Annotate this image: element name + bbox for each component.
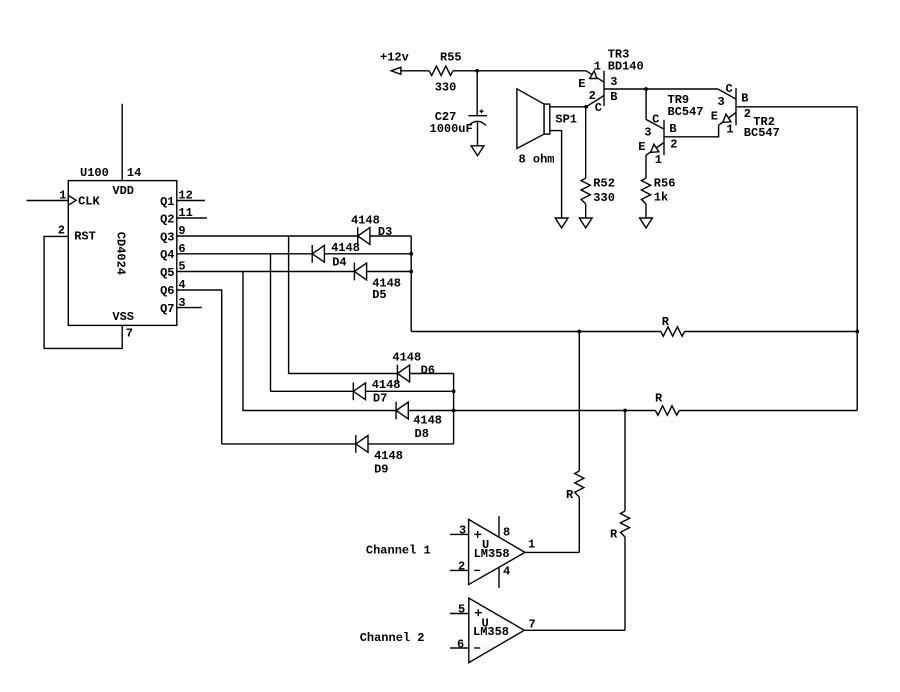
svg-text:D5: D5	[372, 288, 386, 302]
svg-text:C: C	[652, 112, 659, 126]
wire R52 top	[585, 107, 587, 178]
wire D3 group bus vertical	[410, 236, 412, 332]
svg-text:LM358: LM358	[474, 547, 510, 561]
resistor R52	[581, 177, 615, 206]
node TR3 base junction	[644, 87, 648, 91]
wire op2 pin6 stub	[450, 647, 469, 649]
wire D9 to bus	[368, 443, 454, 445]
svg-text:1: 1	[594, 60, 601, 74]
svg-text:Q2: Q2	[160, 212, 174, 226]
wire Q4 drop to D7 row	[271, 254, 354, 391]
svg-text:+12v: +12v	[380, 51, 409, 65]
node channel-2 net to op2 feedback	[623, 409, 627, 413]
wire TR9 collector drop	[646, 89, 664, 129]
op-amp U1B LM358 channel 2	[457, 598, 536, 663]
wire op1 feedback vertical lower	[578, 497, 580, 552]
node SP1/TR3 collector junction	[584, 105, 588, 109]
wire TR9 emitter to R56	[645, 155, 647, 178]
svg-text:4148: 4148	[372, 378, 401, 392]
svg-text:BC547: BC547	[744, 126, 780, 140]
power flag +12v	[380, 51, 409, 75]
wire D4 to bus	[324, 253, 411, 255]
svg-text:1: 1	[726, 123, 733, 137]
svg-text:C: C	[726, 82, 733, 96]
wire D6 group bus vertical	[453, 374, 455, 444]
wire Q2 stub pin 11	[177, 206, 207, 220]
svg-text:4148: 4148	[413, 414, 442, 428]
svg-text:CLK: CLK	[78, 195, 100, 209]
svg-text:3: 3	[718, 95, 725, 109]
svg-text:D7: D7	[373, 392, 387, 406]
wire D5 to bus	[367, 271, 412, 273]
svg-text:7: 7	[529, 617, 536, 631]
wire U100 pin 7 RST loop	[44, 223, 133, 348]
resistor R feedback channel 2	[655, 392, 679, 416]
svg-text:Q6: Q6	[160, 284, 174, 298]
svg-text:R52: R52	[593, 177, 615, 191]
transistor TR3	[578, 47, 644, 115]
wire TR9 base to TR2 emitter	[664, 125, 719, 137]
svg-text:4: 4	[178, 278, 185, 292]
svg-text:2: 2	[670, 138, 677, 152]
svg-text:4148: 4148	[374, 449, 403, 463]
wire right bus vertical	[856, 107, 858, 411]
wire TR3 base	[604, 88, 718, 90]
wire D6 to bus	[410, 373, 454, 375]
wire Q7 stub pin 3	[177, 296, 202, 310]
svg-text:D3: D3	[378, 225, 392, 239]
svg-text:Q7: Q7	[160, 302, 174, 316]
wire channel-2 net left	[454, 410, 656, 412]
wire Q3 drop to D6 row	[289, 236, 398, 374]
wire D7 to bus	[366, 390, 454, 392]
resistor R55	[429, 51, 461, 95]
svg-text:D9: D9	[374, 462, 388, 476]
svg-text:6: 6	[178, 242, 185, 256]
svg-text:9: 9	[178, 224, 185, 238]
svg-text:E: E	[638, 140, 645, 154]
svg-text:R: R	[610, 527, 618, 541]
wire channel-1 net left	[411, 331, 661, 333]
diode D3	[351, 213, 392, 245]
wire CLK stub	[27, 200, 69, 202]
diode D5	[354, 263, 401, 302]
svg-text:1: 1	[655, 153, 662, 167]
wire op1 pin4 power	[498, 567, 500, 588]
svg-text:2: 2	[458, 559, 465, 573]
svg-text:330: 330	[435, 80, 457, 94]
wire op2 output	[524, 629, 625, 631]
svg-text:VSS: VSS	[112, 310, 134, 324]
svg-text:12: 12	[178, 189, 192, 203]
wire R56 to ground	[645, 204, 647, 218]
svg-text:3: 3	[644, 125, 651, 139]
wire TR2 base to right bus	[736, 106, 857, 108]
svg-text:LM358: LM358	[473, 625, 509, 639]
capacitor C27	[430, 109, 488, 135]
svg-text:1: 1	[528, 538, 535, 552]
svg-text:5: 5	[178, 260, 185, 274]
svg-text:D4: D4	[332, 256, 346, 270]
wire SP1 bottom to ground	[550, 131, 562, 218]
svg-text:B: B	[741, 91, 748, 105]
svg-text:Q4: Q4	[160, 248, 174, 262]
transistor TR2	[711, 82, 780, 140]
svg-text:SP1: SP1	[555, 112, 577, 126]
wire D3 to bus	[370, 235, 411, 237]
svg-text:E: E	[578, 77, 585, 91]
svg-text:2: 2	[744, 107, 751, 121]
wire op1 output	[525, 551, 579, 553]
node D8 bus junction	[452, 409, 456, 413]
diode D9	[356, 435, 403, 476]
svg-text:RST: RST	[74, 230, 96, 244]
wire +12v rail left	[401, 70, 429, 72]
wire op2 feedback vertical upper	[624, 411, 626, 512]
op-amp U1A LM358 channel 1	[458, 519, 535, 584]
ground R56	[640, 218, 653, 228]
svg-text:4: 4	[503, 565, 510, 579]
node D4 bus junction	[409, 252, 413, 256]
svg-text:14: 14	[127, 166, 141, 180]
svg-text:Channel 2: Channel 2	[360, 631, 425, 645]
node D5 bus junction	[409, 270, 413, 274]
svg-text:6: 6	[457, 638, 464, 652]
svg-text:C: C	[595, 101, 602, 115]
wire op1 pin8 power	[498, 516, 500, 537]
wire op1 pin2 stub	[450, 569, 469, 571]
svg-text:D8: D8	[415, 427, 429, 441]
transistor TR9	[638, 93, 703, 167]
diode D6	[392, 351, 435, 383]
diode D4	[312, 241, 360, 270]
svg-text:Q5: Q5	[160, 266, 174, 280]
node channel-1 net to op1 feedback	[577, 330, 581, 334]
resistor R series channel 2	[610, 511, 630, 541]
wire D8 to bus	[408, 410, 453, 412]
svg-text:R56: R56	[654, 177, 676, 191]
op-amp U100 counter CD4024 body	[68, 166, 177, 326]
wire C27 to ground	[477, 122, 479, 146]
svg-text:1000uF: 1000uF	[430, 122, 473, 136]
wire Q4 row pin 6	[177, 242, 312, 256]
svg-text:D6: D6	[421, 363, 435, 377]
svg-text:E: E	[711, 110, 718, 124]
wire Q6 pin 4 down to D9 row	[177, 278, 222, 444]
svg-text:Channel 1: Channel 1	[366, 544, 431, 558]
wire D9 row	[222, 443, 356, 445]
svg-text:3: 3	[459, 524, 466, 538]
svg-text:R: R	[566, 488, 574, 502]
svg-text:B: B	[610, 90, 617, 104]
wire SP1 top	[550, 106, 586, 108]
ground SP1	[555, 218, 568, 228]
svg-text:B: B	[669, 122, 676, 136]
svg-text:VDD: VDD	[112, 184, 134, 198]
wire C27 drop	[476, 71, 478, 116]
svg-text:8: 8	[503, 526, 510, 540]
wire Q5 row pin 5	[177, 260, 355, 274]
svg-text:U100: U100	[80, 166, 109, 180]
wire +12v rail right	[453, 70, 586, 72]
svg-text:3: 3	[178, 296, 185, 310]
svg-text:8 ohm: 8 ohm	[519, 152, 555, 166]
ground C27	[471, 146, 484, 156]
speaker SP1	[517, 89, 577, 167]
resistor R feedback channel 1	[661, 315, 685, 336]
svg-text:4148: 4148	[351, 213, 380, 227]
svg-text:330: 330	[593, 191, 615, 205]
wire Q1 stub pin 12	[177, 189, 205, 203]
wire U100 pin 14 top	[121, 104, 123, 181]
svg-text:R: R	[655, 392, 663, 406]
wire Q3 row pin 9	[177, 224, 358, 238]
wire channel-1 net right	[685, 331, 858, 333]
resistor R56	[641, 177, 675, 205]
ground R52	[579, 218, 592, 228]
node D7 bus junction	[452, 389, 456, 393]
wire Q5 drop to D8 row	[243, 272, 396, 411]
wire op1 feedback vertical upper	[578, 332, 580, 472]
resistor R series channel 1	[566, 471, 584, 502]
node clock input triangle U100 pin 1	[59, 188, 76, 205]
svg-text:1k: 1k	[654, 190, 668, 204]
svg-text:R: R	[662, 315, 670, 329]
node C27 tap	[475, 69, 479, 73]
svg-text:11: 11	[178, 206, 192, 220]
svg-text:4148: 4148	[392, 351, 421, 365]
svg-text:BC547: BC547	[668, 105, 704, 119]
wire op2 pin5 stub	[450, 613, 469, 615]
svg-text:CD4024: CD4024	[113, 232, 127, 275]
svg-text:3: 3	[610, 75, 617, 89]
diode D7	[353, 378, 400, 406]
svg-text:7: 7	[126, 326, 133, 340]
svg-text:BD140: BD140	[608, 60, 644, 74]
svg-text:R55: R55	[440, 51, 462, 65]
svg-text:4148: 4148	[331, 241, 360, 255]
wire channel-2 net right	[679, 410, 857, 412]
svg-text:2: 2	[58, 223, 65, 237]
svg-text:Q3: Q3	[160, 230, 174, 244]
diode D8	[396, 402, 442, 441]
wire op2 feedback vertical lower	[624, 537, 626, 630]
svg-text:Q1: Q1	[160, 195, 174, 209]
node right bus junction	[855, 330, 859, 334]
wire R52 to ground	[585, 204, 587, 218]
wire op1 pin3 stub	[450, 533, 469, 535]
